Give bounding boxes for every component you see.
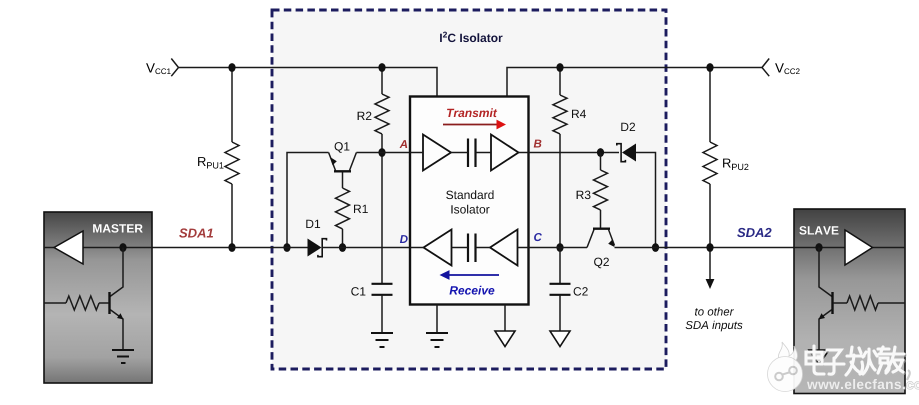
resistor R4	[559, 68, 561, 96]
MASTER block	[44, 212, 152, 383]
resistor R2	[381, 68, 383, 95]
Standard Isolator text	[446, 190, 493, 199]
junction node B / R3 / D2	[597, 148, 604, 157]
junction node C / C2	[556, 243, 563, 252]
slave ground	[809, 350, 829, 365]
slave buffer	[794, 247, 905, 249]
wire Q1 emitter loop to SDA1	[287, 153, 329, 248]
junction VCC1 / RPU1	[228, 63, 235, 72]
master ground	[112, 350, 134, 363]
node A	[400, 140, 408, 148]
isolation cap bottom	[468, 234, 476, 263]
receive arrow	[449, 274, 499, 276]
node D	[400, 235, 408, 243]
buffer U1d	[424, 230, 452, 266]
VCC2 chevron	[762, 59, 769, 77]
buffer U1c	[490, 230, 518, 266]
slave transistor	[819, 248, 832, 297]
junction SDA1 / RPU1	[228, 243, 235, 252]
transistor Q1	[329, 153, 336, 171]
watermark logo	[768, 342, 803, 392]
standard isolator box	[410, 97, 529, 305]
resistor R3	[600, 153, 602, 171]
watermark url	[807, 379, 919, 389]
SDA1 label	[179, 228, 213, 237]
buffer U1b	[491, 135, 519, 171]
diode D1 (schottky)	[308, 239, 322, 257]
I2C isolator dashed boundary box	[272, 10, 666, 369]
ground under C1	[371, 333, 393, 347]
junction slave buffer / transistor	[815, 243, 822, 252]
ground under C2	[550, 331, 570, 347]
Transmit label	[447, 108, 497, 117]
wire SDA2 line	[529, 247, 795, 249]
arrow to other SDA inputs	[709, 252, 711, 281]
node C	[534, 233, 542, 241]
master transistor	[110, 248, 123, 297]
resistor RPU1	[231, 68, 233, 143]
junction SDA1 / Q1 emitter loop	[283, 243, 290, 252]
VCC1 chevron	[171, 59, 178, 77]
master base resistor	[44, 302, 66, 304]
SLAVE block	[794, 209, 905, 394]
wire receive path	[410, 247, 529, 249]
wire node B line	[529, 153, 656, 248]
junction SDA2 / D2 return	[652, 243, 659, 252]
watermark chinese characters	[807, 347, 905, 376]
transmit arrow	[443, 124, 497, 126]
junction node A	[378, 148, 385, 157]
resistor R1	[342, 173, 344, 189]
wire Q1 collector to node A	[356, 152, 410, 154]
isolator ground stub left	[436, 305, 438, 334]
isolation cap top	[468, 139, 476, 168]
wire transmit path	[410, 152, 529, 154]
I2C Isolator title	[440, 32, 502, 42]
resistor RPU2	[709, 68, 711, 143]
wire SDA1 line	[83, 247, 308, 249]
Receive label	[450, 286, 495, 295]
VCC1 label	[146, 63, 171, 74]
junction VCC2 / RPU2	[706, 63, 713, 72]
capacitor C1	[372, 284, 393, 295]
junction VCC2 / R4	[556, 63, 563, 72]
wire VCC1 rail	[179, 68, 437, 97]
VCC2 label	[775, 63, 800, 74]
SDA2 label	[737, 228, 771, 237]
watermark comma	[907, 370, 910, 380]
buffer U1a	[423, 135, 451, 171]
wire VCC2 rail	[507, 68, 762, 97]
diode D2 (schottky)	[622, 144, 636, 162]
wire node A to C1	[381, 153, 383, 284]
transistor Q2	[587, 230, 594, 248]
capacitor C2	[559, 248, 561, 284]
master buffer	[44, 247, 152, 249]
node B	[534, 140, 542, 148]
junction master buffer / transistor	[119, 243, 126, 252]
junction SDA1 / R1 / D1 cathode	[339, 243, 346, 252]
junction VCC1 / R2	[378, 63, 385, 72]
isolator ground stub right	[504, 305, 506, 332]
junction SDA2 / RPU2	[706, 243, 713, 252]
slave base resistor	[833, 302, 847, 304]
